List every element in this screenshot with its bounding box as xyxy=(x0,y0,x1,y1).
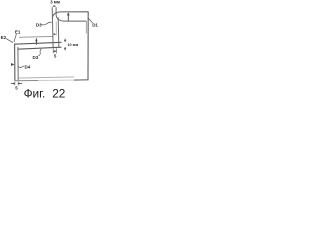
svg-text:Фиг.: Фиг. xyxy=(24,87,46,101)
svg-text:22: 22 xyxy=(52,87,65,101)
svg-text:E2: E2 xyxy=(1,35,7,40)
svg-text:10 мм: 10 мм xyxy=(67,43,78,47)
svg-text:D3: D3 xyxy=(36,23,42,28)
svg-text:3 мм: 3 мм xyxy=(50,0,60,4)
svg-text:D4: D4 xyxy=(25,64,31,69)
svg-text:D3: D3 xyxy=(33,55,39,60)
svg-text:E1: E1 xyxy=(15,29,21,34)
svg-text:D1: D1 xyxy=(92,22,98,27)
